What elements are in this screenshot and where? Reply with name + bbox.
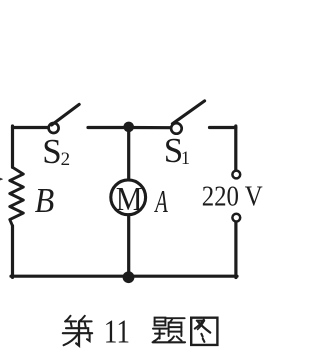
wire middle vertical lower [127,215,130,277]
wire bottom rail [11,275,237,278]
svg-text:220 V: 220 V [202,181,263,213]
caption: 题 (drawn) [153,318,185,343]
scan speck at left edge [0,178,3,181]
node bottom junction [123,271,135,283]
terminal upper (220V supply) [232,171,240,179]
wire S2 to top junction [88,126,129,129]
svg-text:1: 1 [181,148,190,169]
wire left rail lower [11,226,14,278]
caption: 第 (drawn) [63,316,92,346]
svg-text:M: M [116,181,143,218]
svg-text:A: A [154,184,168,219]
svg-text:2: 2 [61,150,70,170]
node top junction [123,122,134,133]
caption: 图 (drawn) [191,318,217,345]
wire S1 to top-right corner [210,126,236,129]
wire middle vertical upper [127,128,130,181]
wire top-left horizontal (corner to S2) [13,126,49,129]
svg-text:11: 11 [104,314,130,350]
switch S2 [49,104,80,133]
wire left rail upper [11,126,14,167]
wire right rail lower [234,222,237,278]
svg-text:B: B [35,181,55,220]
switch S1 [171,101,205,134]
wire right rail upper [234,126,237,170]
motor A (M symbol) [111,180,146,215]
wire top junction to S1 [129,126,171,129]
terminal lower (220V supply) [232,214,240,222]
resistor B [10,167,23,226]
svg-text:S: S [42,132,61,171]
